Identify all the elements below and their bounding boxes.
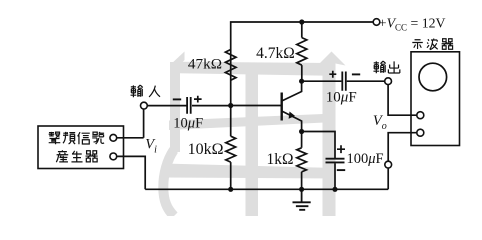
svg-text:100μF: 100μF xyxy=(347,151,384,167)
resistor R2 4.7k body xyxy=(297,38,307,66)
node C3 bottom junction xyxy=(332,187,337,192)
label text qi of 產生器 xyxy=(86,151,98,162)
label text bo of 示波器 xyxy=(427,39,438,50)
label C1 plus xyxy=(194,96,202,103)
label text chan of 產生器 xyxy=(56,150,68,162)
generator box xyxy=(38,126,124,169)
label C2 plus xyxy=(329,71,336,78)
watermark horizontal bar bottom xyxy=(163,164,335,179)
oscilloscope box xyxy=(411,52,460,146)
label text shu of 輸入 xyxy=(131,85,143,97)
terminal probe circle on lower wire xyxy=(385,161,392,168)
capacitor C2 10uF plates xyxy=(342,72,346,91)
terminal generator upper xyxy=(110,134,117,141)
transistor Q1 emitter arrow xyxy=(289,112,295,119)
wire base node to 10k and rail xyxy=(231,106,282,190)
label text sheng of 產生器 xyxy=(71,151,82,162)
wire C2 to output terminal xyxy=(347,80,385,82)
terminal scope upper xyxy=(417,112,424,119)
node base divider junction xyxy=(228,103,233,108)
svg-text:4.7kΩ: 4.7kΩ xyxy=(256,45,295,62)
wire top supply rail xyxy=(231,22,376,106)
watermark horizontal bar top xyxy=(179,62,330,76)
terminal input circle xyxy=(141,102,148,109)
wire scope lower to rail xyxy=(388,133,416,190)
svg-text:1kΩ: 1kΩ xyxy=(266,151,293,168)
wire generator lower xyxy=(117,156,146,189)
label text sheng of 聲頻信號 xyxy=(49,132,61,144)
watermark vertical bar middle xyxy=(246,70,259,216)
wire input to cap xyxy=(147,105,186,107)
resistor R1 47k body xyxy=(225,50,236,81)
svg-text:10μF: 10μF xyxy=(326,89,357,105)
transistor Q1 emitter lead xyxy=(282,111,302,132)
node collector junction xyxy=(299,79,304,84)
node emitter junction xyxy=(299,129,304,134)
label text hao of 聲頻信號 xyxy=(92,132,104,144)
node junction top rail to 4.7k xyxy=(299,19,304,24)
wire emitter to C3 xyxy=(302,132,335,159)
svg-text:47kΩ: 47kΩ xyxy=(188,56,222,73)
transistor Q1 collector lead xyxy=(282,81,302,101)
label text qi of 示波器 xyxy=(442,39,454,50)
node 10k bottom junction xyxy=(228,187,233,192)
wire C3 to rail xyxy=(334,163,336,189)
wire emitter to 1k xyxy=(301,132,303,190)
capacitor C1 10uF plates xyxy=(187,97,191,114)
wire cap to base node xyxy=(192,105,231,107)
label text chu of 輸出 xyxy=(388,61,399,73)
watermark vertical bar left with curved foot xyxy=(170,52,185,66)
wire input terminal down xyxy=(143,109,145,138)
oscilloscope screen circle xyxy=(419,63,447,91)
wire output terminal to scope upper xyxy=(388,85,417,116)
watermark horizontal bar middle xyxy=(169,114,335,131)
label text xin of 聲頻信號 xyxy=(78,132,90,144)
label text pin of 聲頻信號 xyxy=(63,132,75,144)
svg-text:10kΩ: 10kΩ xyxy=(188,141,224,158)
wire bottom rail xyxy=(145,188,388,190)
terminal generator lower xyxy=(110,153,117,160)
terminal Vcc circle xyxy=(373,19,380,26)
wire 4.7k branch xyxy=(301,22,303,81)
label text shi of 示波器 xyxy=(412,40,423,49)
label C3 plus xyxy=(337,145,345,153)
ground xyxy=(293,189,311,210)
label text shu of 輸出 xyxy=(373,61,385,73)
svg-text:+VCC = 12V: +VCC = 12V xyxy=(379,16,446,33)
svg-text:Vo: Vo xyxy=(373,113,387,132)
watermark up-arrow right xyxy=(318,52,346,217)
transistor Q1 base bar xyxy=(281,93,283,121)
terminal output circle xyxy=(385,78,392,85)
terminal scope lower xyxy=(417,129,424,136)
label C1 minus xyxy=(173,98,181,100)
svg-text:10μF: 10μF xyxy=(173,115,203,131)
label text ru of 輸入 xyxy=(149,86,160,97)
wire generator upper xyxy=(117,137,144,139)
label C3 minus xyxy=(337,169,345,171)
label C2 minus xyxy=(352,73,360,75)
wire collector to C2 xyxy=(302,80,342,82)
node 1k bottom ground junction xyxy=(299,187,304,192)
capacitor C3 100uF plates xyxy=(326,159,345,163)
resistor R3 10k body xyxy=(226,136,236,162)
svg-text:Vi: Vi xyxy=(145,137,157,156)
resistor R4 1k body xyxy=(297,148,307,172)
